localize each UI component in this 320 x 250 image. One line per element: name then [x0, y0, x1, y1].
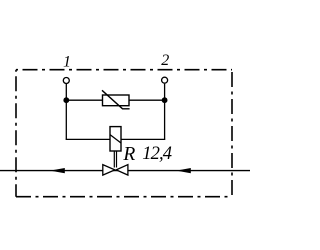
wire thermistor to right — [129, 99, 165, 101]
wire right bottom horizontal — [121, 138, 165, 140]
value label R 12,4 — [122, 144, 171, 165]
junction dot left — [63, 97, 69, 103]
valve left triangle — [103, 165, 115, 176]
svg-text:1: 1 — [63, 53, 71, 70]
enclosure border bottom (dash-dot) — [16, 196, 232, 198]
wire left bottom horizontal — [66, 138, 110, 140]
enclosure border left (dash-dot) — [15, 70, 17, 197]
svg-text:12,4: 12,4 — [142, 144, 171, 164]
thermistor — [102, 90, 130, 109]
wire left to thermistor — [66, 99, 102, 101]
wire right vertical — [164, 84, 166, 140]
terminal 1 circle — [63, 78, 69, 84]
terminal 2 circle — [162, 77, 168, 83]
wire left vertical — [65, 84, 67, 139]
arrowhead right — [176, 168, 191, 173]
svg-text:R: R — [122, 144, 135, 165]
enclosure border right (dash-dot) — [231, 70, 233, 197]
svg-text:2: 2 — [161, 52, 169, 69]
valve stem (double line) — [114, 151, 116, 167]
enclosure border top (dash-dot) — [16, 69, 232, 71]
junction dot right — [162, 97, 168, 103]
solenoid coil — [110, 127, 121, 151]
flow line — [0, 170, 250, 172]
valve right triangle — [116, 165, 128, 176]
arrowhead left — [50, 168, 65, 173]
